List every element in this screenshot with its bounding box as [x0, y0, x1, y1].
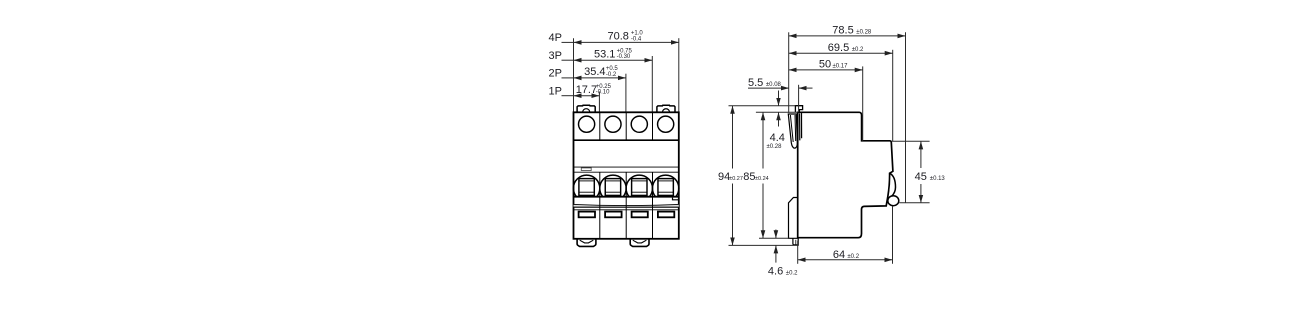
- svg-text:64: 64: [833, 249, 845, 261]
- svg-text:4.6: 4.6: [768, 265, 783, 277]
- svg-text:3P: 3P: [549, 50, 562, 62]
- svg-text:±0.27: ±0.27: [729, 176, 743, 182]
- svg-text:1P: 1P: [549, 85, 562, 97]
- svg-text:±0.17: ±0.17: [833, 64, 849, 70]
- svg-text:±0.08: ±0.08: [766, 82, 782, 88]
- svg-text:5.5: 5.5: [748, 77, 763, 89]
- svg-text:-0.10: -0.10: [596, 90, 610, 96]
- svg-text:78.5: 78.5: [832, 24, 853, 36]
- svg-text:±0.24: ±0.24: [755, 176, 769, 182]
- svg-text:53.1: 53.1: [594, 48, 615, 60]
- svg-text:±0.2: ±0.2: [852, 47, 864, 53]
- svg-text:-0.30: -0.30: [617, 54, 631, 60]
- svg-text:4.4: 4.4: [770, 132, 785, 144]
- svg-text:70.8: 70.8: [607, 31, 628, 43]
- svg-text:±0.2: ±0.2: [847, 254, 859, 260]
- svg-text:45: 45: [915, 171, 927, 183]
- svg-text:±0.28: ±0.28: [767, 144, 783, 150]
- svg-text:-0.2: -0.2: [606, 72, 617, 78]
- svg-text:-0.4: -0.4: [631, 36, 642, 42]
- svg-text:69.5: 69.5: [828, 42, 849, 54]
- svg-text:2P: 2P: [549, 68, 562, 80]
- svg-text:±0.13: ±0.13: [930, 176, 946, 182]
- svg-text:85: 85: [743, 171, 755, 183]
- svg-text:4P: 4P: [549, 32, 562, 44]
- svg-text:50: 50: [819, 59, 831, 71]
- svg-text:±0.28: ±0.28: [856, 29, 872, 35]
- svg-text:35.4: 35.4: [584, 66, 605, 78]
- svg-text:±0.2: ±0.2: [786, 270, 798, 276]
- svg-text:17.7: 17.7: [576, 84, 597, 96]
